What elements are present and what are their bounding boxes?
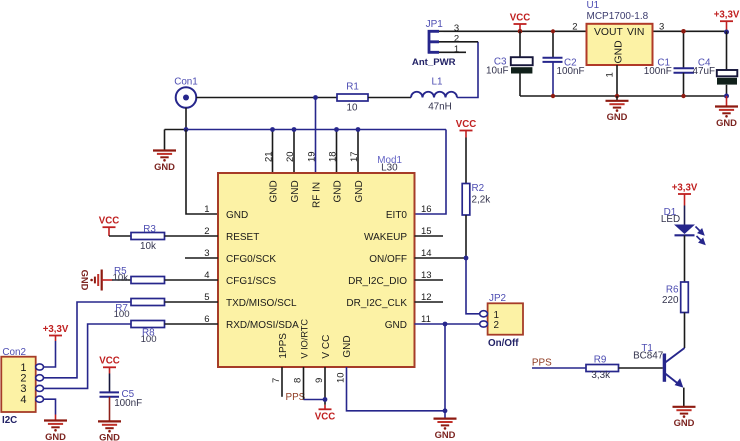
svg-text:GND: GND xyxy=(385,320,407,331)
svg-text:2: 2 xyxy=(494,320,500,331)
svg-text:7: 7 xyxy=(271,378,282,383)
ground far right xyxy=(726,96,728,106)
svg-text:R1: R1 xyxy=(346,82,359,93)
wire U1 pin3 to +3.3V xyxy=(653,30,727,32)
wire pin 7 PPS xyxy=(281,367,283,397)
svg-text:MCP1700-1.8: MCP1700-1.8 xyxy=(587,11,649,22)
wire R3 to pin 2 xyxy=(165,235,219,237)
svg-text:VCC: VCC xyxy=(456,119,476,130)
capacitor C3 10uF polarized xyxy=(519,31,521,57)
Con2 pin 2 xyxy=(36,375,44,381)
svg-text:17: 17 xyxy=(349,151,360,162)
wire ON/OFF to JP2 pin 1 xyxy=(466,258,480,314)
wire LED to R6 xyxy=(684,235,686,282)
module pin 12 stub xyxy=(415,301,444,303)
JP1 pin 3 xyxy=(439,30,444,32)
junction +3.3V rail xyxy=(724,30,729,35)
svg-text:10: 10 xyxy=(347,103,358,114)
svg-text:GND: GND xyxy=(333,180,344,202)
svg-text:9: 9 xyxy=(314,378,325,383)
wire Con1 to module pin 1 xyxy=(186,130,218,215)
capacitor C5 100nF xyxy=(109,374,111,393)
JP1 pin 1 xyxy=(439,51,466,53)
svg-text:100: 100 xyxy=(141,334,157,345)
svg-text:GND: GND xyxy=(269,180,280,202)
svg-text:100nF: 100nF xyxy=(114,398,142,409)
svg-text:2,2k: 2,2k xyxy=(472,195,491,206)
svg-text:+3,3V: +3,3V xyxy=(714,10,740,21)
svg-text:3: 3 xyxy=(454,23,459,34)
svg-text:VCC: VCC xyxy=(99,216,119,227)
wire Con2 pin4 to ground xyxy=(44,399,56,414)
svg-text:VCC: VCC xyxy=(315,412,335,423)
svg-text:BC847: BC847 xyxy=(633,351,663,362)
svg-text:1PPS: 1PPS xyxy=(278,333,289,359)
svg-text:Con2: Con2 xyxy=(2,347,26,358)
svg-text:U1: U1 xyxy=(587,0,600,11)
svg-text:18: 18 xyxy=(328,151,339,162)
resistor R5 10k xyxy=(131,277,165,284)
svg-text:VCC: VCC xyxy=(99,356,119,367)
connector Con1 (antenna coax) xyxy=(176,87,197,108)
svg-text:20: 20 xyxy=(285,151,296,162)
svg-text:4: 4 xyxy=(20,394,26,406)
svg-text:RESET: RESET xyxy=(226,232,259,243)
junction C4 bottom xyxy=(724,94,729,99)
svg-text:GND: GND xyxy=(45,431,66,441)
junction RF line xyxy=(313,95,318,100)
wire T1 emitter to GND xyxy=(683,388,685,407)
wire R9 to T1 base xyxy=(619,367,663,369)
module pin 3 stub xyxy=(185,257,218,259)
svg-text:I2C: I2C xyxy=(2,415,17,426)
wire pin 8 V IO/RTC xyxy=(303,367,305,400)
capacitor C4 47uF polarized xyxy=(726,31,728,70)
module pin 21 stub xyxy=(272,130,274,174)
svg-text:GND: GND xyxy=(290,180,301,202)
power VCC top xyxy=(514,23,527,25)
svg-text:19: 19 xyxy=(307,151,318,162)
LED arrows xyxy=(696,227,705,245)
svg-text:ON/OFF: ON/OFF xyxy=(369,254,407,265)
junction Con1 bus xyxy=(184,127,189,132)
power VCC at C5 xyxy=(103,366,116,368)
svg-text:V CC: V CC xyxy=(321,335,332,359)
svg-text:DR_I2C_DIO: DR_I2C_DIO xyxy=(348,276,407,287)
svg-text:VIN: VIN xyxy=(627,27,644,38)
capacitor C2 100nF xyxy=(552,31,554,57)
junction VCC rail xyxy=(518,29,523,34)
resistor R9 3.3k xyxy=(586,365,619,372)
svg-text:R6: R6 xyxy=(666,285,679,296)
svg-text:3,3k: 3,3k xyxy=(591,370,610,381)
resistor R8 100 xyxy=(131,321,165,328)
power VCC at R3 xyxy=(103,226,116,228)
svg-text:V IO/RTC: V IO/RTC xyxy=(300,319,310,359)
svg-text:10uF: 10uF xyxy=(486,66,509,77)
svg-text:GND: GND xyxy=(80,270,91,291)
junction U1 pin1 bottom xyxy=(615,94,619,98)
wire pin 14 ON/OFF xyxy=(415,257,467,259)
wire R6 to T1 collector xyxy=(684,313,686,349)
wire Con2 pin2 to R7 xyxy=(44,302,132,378)
svg-text:1: 1 xyxy=(204,204,209,215)
ground at R5 rotated xyxy=(101,270,103,291)
svg-text:1: 1 xyxy=(454,44,459,55)
svg-text:GND: GND xyxy=(674,417,695,428)
wire L1 to JP1 pin 2 xyxy=(457,42,478,98)
wire bus to pin16 xyxy=(415,130,447,215)
wire R5 to pin 4 xyxy=(165,279,219,281)
connector Con2 xyxy=(1,357,35,412)
resistor R2 2.2k xyxy=(462,184,470,216)
svg-text:GND: GND xyxy=(607,111,628,122)
ground below JP2 net xyxy=(434,418,457,420)
svg-text:GND: GND xyxy=(613,40,624,63)
wire GND to R5 xyxy=(102,279,112,281)
junction pin8 pin9 xyxy=(323,397,328,402)
svg-text:CFG0/SCK: CFG0/SCK xyxy=(226,254,276,265)
svg-text:47uF: 47uF xyxy=(692,66,715,77)
wire +3.3V to LED xyxy=(684,206,686,225)
svg-text:1: 1 xyxy=(605,72,616,77)
junction pin 11 xyxy=(443,322,448,327)
wire +3.3V to Con2 pin1 xyxy=(44,341,56,367)
wire GND bus xyxy=(165,129,187,131)
junction ON/OFF xyxy=(464,256,469,261)
wire RF to pin 19 xyxy=(315,98,317,174)
svg-text:21: 21 xyxy=(264,151,275,162)
svg-text:1: 1 xyxy=(494,310,500,321)
svg-text:VOUT: VOUT xyxy=(594,27,624,38)
svg-text:JP1: JP1 xyxy=(426,19,444,30)
Con2 pin 1 xyxy=(36,364,44,370)
wire Con1 down to GND bus xyxy=(185,108,187,130)
module pin 20 stub xyxy=(293,130,295,174)
wire R8 to pin 6 xyxy=(165,323,219,325)
ground below U1 xyxy=(616,96,618,101)
svg-text:DR_I2C_CLK: DR_I2C_CLK xyxy=(346,298,407,309)
svg-text:TXD/MISO/SCL: TXD/MISO/SCL xyxy=(226,298,297,309)
svg-text:16: 16 xyxy=(421,204,432,215)
svg-text:GND: GND xyxy=(342,335,353,357)
module Mod1 L30 xyxy=(218,173,415,367)
svg-text:LED: LED xyxy=(661,214,680,225)
svg-text:L30: L30 xyxy=(381,163,398,174)
junction C1 bottom xyxy=(681,94,685,98)
power VCC at R2 xyxy=(460,130,473,132)
svg-text:2: 2 xyxy=(572,21,577,32)
svg-text:L1: L1 xyxy=(432,77,443,88)
wire pin 11 GND to JP2 pin 2 xyxy=(415,323,480,325)
svg-text:220: 220 xyxy=(662,295,679,306)
svg-text:100: 100 xyxy=(114,309,130,320)
svg-text:R2: R2 xyxy=(472,183,485,194)
svg-text:RF IN: RF IN xyxy=(312,182,323,208)
svg-text:100nF: 100nF xyxy=(644,66,672,77)
Con2 pin 3 xyxy=(36,385,44,391)
svg-text:WAKEUP: WAKEUP xyxy=(364,232,407,243)
power +3.3V top right xyxy=(720,20,733,22)
jumper JP1 symbol xyxy=(428,30,439,54)
wire pin 9 VCC xyxy=(324,367,326,405)
svg-text:PPS: PPS xyxy=(532,358,552,369)
power VCC below pin 9 xyxy=(324,405,326,410)
svg-text:EIT0: EIT0 xyxy=(386,210,408,221)
wire VCC to R3 xyxy=(109,235,131,237)
svg-text:VCC: VCC xyxy=(510,12,530,23)
wire R7 to pin 5 xyxy=(165,301,219,303)
svg-text:R9: R9 xyxy=(594,354,607,365)
svg-text:Ant_PWR: Ant_PWR xyxy=(412,57,456,68)
module pin 15 stub xyxy=(415,235,444,237)
svg-text:3: 3 xyxy=(659,22,664,33)
U1 pin 1 wire xyxy=(616,65,618,96)
svg-text:10k: 10k xyxy=(140,241,156,252)
svg-text:On/Off: On/Off xyxy=(488,338,519,349)
resistor R6 220 xyxy=(681,282,689,313)
capacitor C1 100nF xyxy=(683,31,685,68)
wire R1 to L1 xyxy=(368,97,411,99)
module pin 13 stub xyxy=(415,279,444,281)
wire R2 to ON/OFF xyxy=(465,215,467,258)
svg-text:GND: GND xyxy=(226,210,248,221)
power +3.3V at LED xyxy=(678,193,691,195)
connector JP2 xyxy=(488,303,523,334)
ground below C5 xyxy=(98,420,121,422)
ground below Con1 xyxy=(164,130,166,151)
junction C2 top xyxy=(551,29,555,33)
resistor R1 xyxy=(337,94,368,101)
ground below T1 xyxy=(673,406,696,408)
svg-text:10k: 10k xyxy=(113,273,129,284)
wire GND down xyxy=(444,324,446,411)
svg-text:GND: GND xyxy=(435,429,456,440)
svg-text:GND: GND xyxy=(354,180,365,202)
ground below Con2 xyxy=(44,419,67,421)
svg-text:GND: GND xyxy=(154,161,175,172)
wire GND rail below regulator xyxy=(520,95,727,97)
svg-text:10: 10 xyxy=(335,372,346,383)
svg-text:JP2: JP2 xyxy=(489,293,506,304)
svg-text:100nF: 100nF xyxy=(557,66,585,77)
junction pin 10 GND xyxy=(443,408,448,413)
svg-text:GND: GND xyxy=(716,117,737,128)
wire PPS to R9 xyxy=(532,367,586,369)
inductor L1 xyxy=(411,92,457,98)
wire Con1 to R1 xyxy=(196,97,337,99)
power +3.3V at Con2 xyxy=(49,335,62,337)
module pin 17 stub xyxy=(357,130,359,174)
wire top VCC rail xyxy=(444,30,587,32)
Con2 pin 4 xyxy=(36,396,44,402)
resistor R7 100 xyxy=(131,299,165,306)
svg-text:PPS: PPS xyxy=(286,392,306,403)
module pin 18 stub xyxy=(336,130,338,174)
junction C1 top xyxy=(681,29,686,34)
svg-text:CFG1/SCS: CFG1/SCS xyxy=(226,276,276,287)
svg-text:+3,3V: +3,3V xyxy=(672,182,698,193)
wire Con2 pin3 to R8 xyxy=(44,324,132,388)
svg-text:2: 2 xyxy=(454,34,459,45)
svg-text:RXD/MOSI/SDA: RXD/MOSI/SDA xyxy=(226,320,299,331)
junction C2 bottom xyxy=(551,94,555,98)
svg-text:+3,3V: +3,3V xyxy=(43,324,69,335)
wire pin 10 GND xyxy=(347,367,446,411)
svg-text:47nH: 47nH xyxy=(428,102,452,113)
JP1 pin 2 xyxy=(439,41,478,43)
svg-text:8: 8 xyxy=(292,378,303,383)
svg-text:Con1: Con1 xyxy=(174,77,198,88)
resistor R3 10k xyxy=(131,233,165,240)
svg-text:GND: GND xyxy=(99,432,120,441)
wire VCC to R2 xyxy=(465,138,467,184)
svg-text:R3: R3 xyxy=(143,224,156,235)
